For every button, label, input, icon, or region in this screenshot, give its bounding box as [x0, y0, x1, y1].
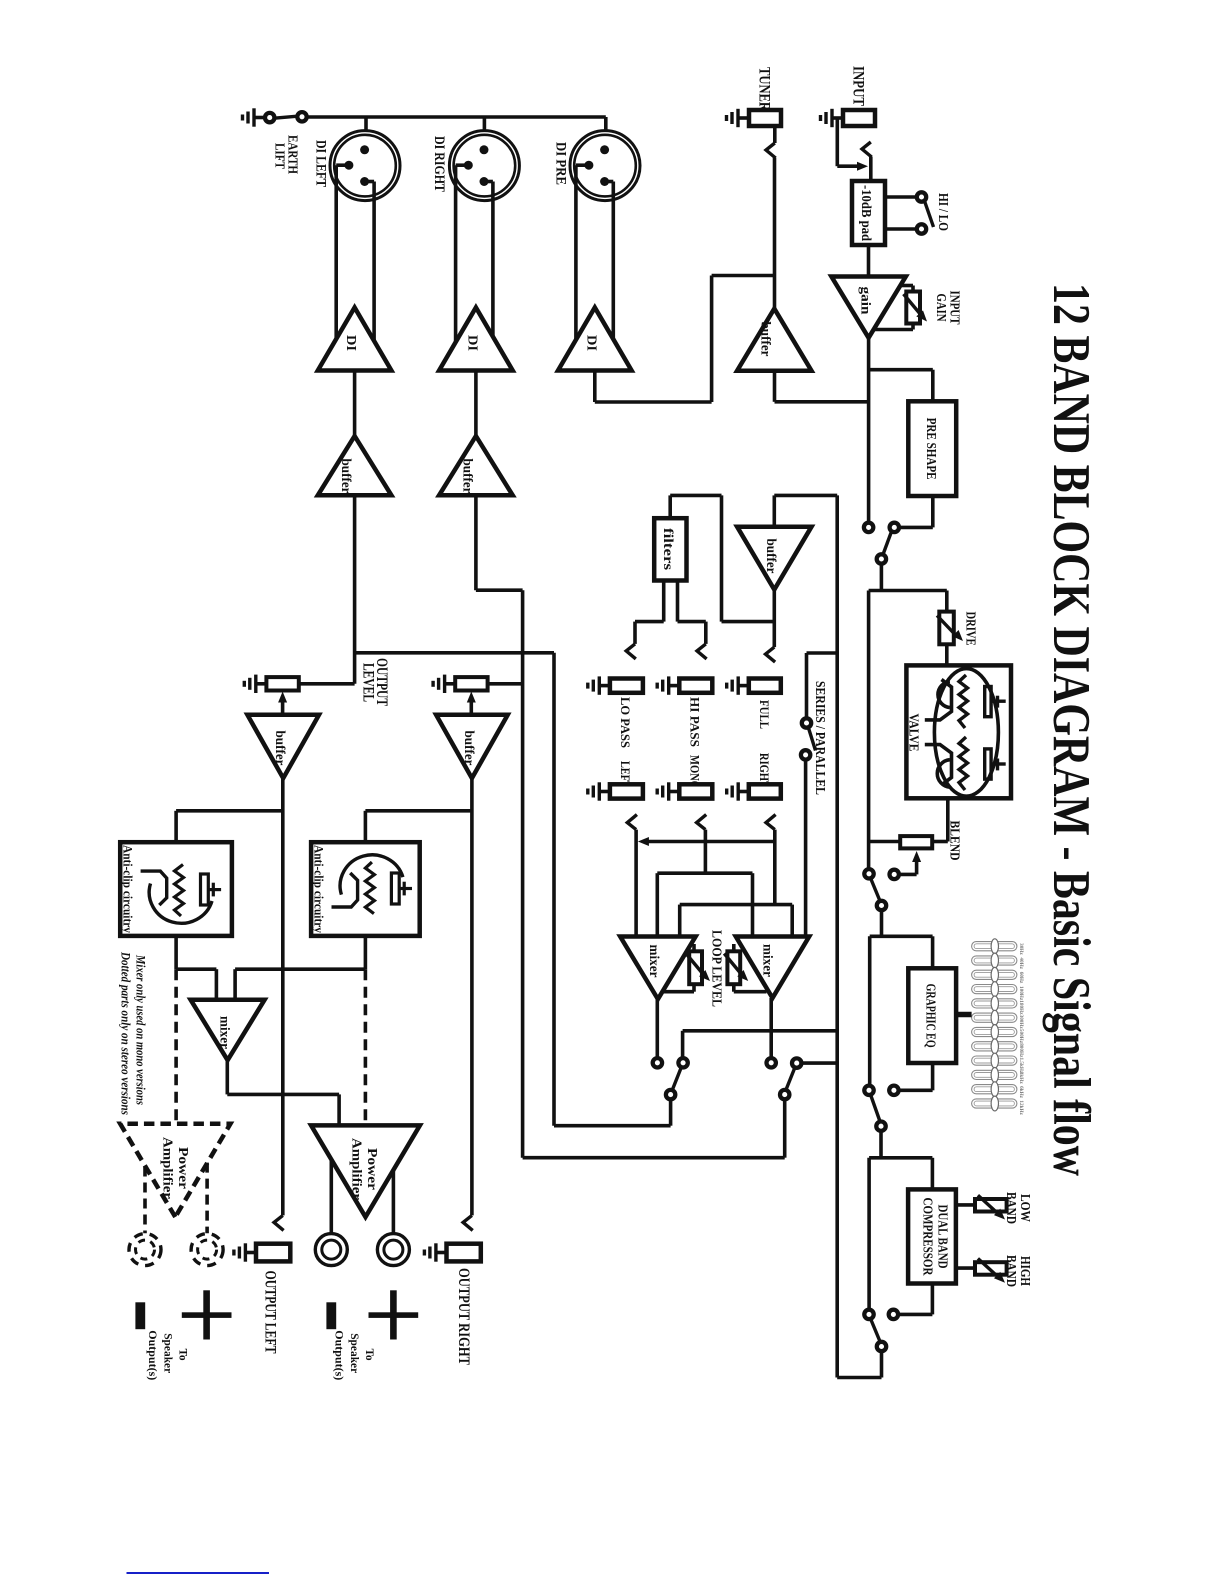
wire left pot lead: [299, 682, 355, 686]
potentiometer LOW BAND arrow: [978, 1195, 1005, 1219]
valve V1 triode 1 grid: [925, 675, 968, 728]
switch S10 mixer R contact A: [767, 1058, 776, 1067]
attenuator -10dB pad box: [852, 181, 885, 245]
wire loop bypass R: [801, 1061, 837, 1065]
label filters: [661, 528, 676, 570]
wire EQ bypass left leg: [868, 936, 872, 1086]
switch S8 parallel contact: [801, 750, 810, 759]
svg-text:buffer: buffer: [273, 731, 288, 766]
label DI right: [464, 335, 479, 351]
label TUNER: [756, 67, 773, 112]
wire mixer R common to right channel: [476, 590, 785, 1157]
label HIGH BAND: [1003, 1255, 1032, 1287]
label INPUT GAIN: [933, 291, 962, 326]
wire EQ in: [931, 936, 935, 968]
wire PRE SHAPE out to contact: [899, 496, 933, 527]
ground for OUTPUT LEVEL L: [244, 675, 267, 693]
wire tuner to buffer output: [773, 158, 777, 309]
svg-text:30Hz: 30Hz: [1018, 943, 1024, 955]
valve V1 triode 2 anode: [985, 749, 1006, 779]
polarity minus R: [326, 1302, 336, 1329]
wire S1 to pad: [869, 157, 873, 181]
wire anti-clip L out dashed: [174, 936, 178, 1124]
potentiometer BLEND body: [900, 836, 932, 848]
switch S6 common contact: [876, 1122, 885, 1131]
wire speaker leads R: [331, 1159, 393, 1233]
label LO PASS / LEFT: [618, 697, 633, 788]
label SERIES / PARALLEL: [812, 681, 827, 795]
label HI PASS / MONO: [687, 697, 702, 789]
potentiometer OUTPUT LEVEL L wiper arrow: [278, 692, 287, 717]
wire buffer tap to DI PRE: [595, 276, 775, 403]
potentiometer DRIVE arrow: [937, 616, 963, 642]
jack J3 LO PASS: [610, 679, 643, 693]
svg-text:BLEND: BLEND: [947, 821, 962, 861]
wire branch to PRE SHAPE in: [869, 370, 933, 402]
svg-text:mixer: mixer: [647, 945, 662, 978]
ground for MONO return jack: [657, 782, 681, 800]
ground for LO PASS jack: [588, 676, 612, 694]
switch S11 earth lift contact A: [265, 113, 274, 122]
op-amp output buffer L: [247, 715, 319, 778]
wire S6 common to comp T: [869, 1131, 932, 1158]
label BLEND: [947, 821, 962, 861]
wire pad to HI/LO contacts: [885, 197, 917, 229]
svg-text:Amplifier: Amplifier: [160, 1137, 175, 1199]
label DI LEFT: [313, 140, 329, 187]
valve V1 envelope: [934, 669, 998, 797]
potentiometer LOOP LEVEL L arrow: [686, 954, 710, 982]
wire gain out to tuner buffer input: [775, 371, 869, 402]
switch S11 lever: [274, 116, 297, 118]
potentiometer LOW BAND body: [975, 1199, 1007, 1212]
wire buffer out junction: [772, 590, 776, 648]
wire mono mixer feed R: [235, 969, 365, 1000]
speaker terminal R-: [315, 1234, 347, 1266]
svg-text:Anti-clip circuitry: Anti-clip circuitry: [121, 845, 136, 933]
speaker terminal R+: [377, 1234, 409, 1266]
wire comp bypass left leg: [867, 1158, 871, 1310]
svg-text:LO PASS: LO PASS: [618, 697, 633, 748]
switch S7 common contact: [877, 1342, 886, 1351]
svg-text:buffer: buffer: [759, 322, 774, 357]
wire trunk to series-parallel contact: [807, 653, 838, 719]
label HI / LO: [935, 193, 950, 231]
switch S9 common contact: [666, 1090, 675, 1099]
label DUAL BAND COMPRESSOR: [921, 1198, 951, 1276]
svg-text:LOOP LEVEL: LOOP LEVEL: [709, 930, 724, 1007]
valve V1 triode 2 grid: [925, 737, 968, 790]
ground for RIGHT return jack: [727, 782, 751, 800]
wire buffer R out: [470, 778, 474, 1215]
valve V1 triode 2 cathode: [937, 760, 950, 788]
switch chevron LEFT return: [627, 815, 637, 830]
label DRIVE: [963, 612, 978, 646]
label FULL / RIGHT: [757, 700, 772, 788]
block DUAL BAND COMPRESSOR: [908, 1189, 956, 1283]
svg-text:800Hz: 800Hz: [1018, 1043, 1024, 1058]
wire EQ out to contact: [898, 1063, 932, 1090]
switch chevron FULL send: [766, 647, 776, 662]
switch S7 lever: [871, 1319, 881, 1342]
switch S4 preshape lever: [883, 532, 892, 555]
svg-text:buffer: buffer: [460, 459, 475, 494]
wire DI right in: [474, 371, 478, 437]
title text 12 BAND BLOCK DIAGRAM - Basic Signal flow: [1042, 283, 1100, 1176]
svg-text:Mixer only used on mono versio: Mixer only used on mono versions: [134, 954, 148, 1105]
label GRAPHIC EQ: [923, 984, 938, 1048]
svg-text:FULL: FULL: [757, 700, 772, 729]
jack J9 OUTPUT LEFT: [256, 1244, 290, 1262]
wire return bus with arrow: [636, 830, 775, 937]
label DI PRE: [553, 142, 569, 185]
svg-text:mixer: mixer: [761, 944, 776, 977]
ground for HI PASS jack: [657, 676, 681, 694]
wire speaker leads L dashed: [145, 1163, 207, 1234]
svg-text:LOW: LOW: [1017, 1194, 1032, 1222]
label PRE SHAPE: [923, 418, 938, 480]
svg-text:6kHz: 6kHz: [1018, 1086, 1024, 1099]
switch S2 HI/LO lever: [925, 201, 934, 227]
svg-text:40Hz: 40Hz: [1018, 957, 1024, 969]
svg-text:Anti-clip circuitry: Anti-clip circuitry: [312, 845, 327, 933]
wire S4 common to T-junction: [869, 563, 947, 590]
label VALVE: [906, 714, 921, 752]
jack J8 RIGHT return: [749, 784, 781, 798]
label mixer R: [761, 944, 776, 977]
wire valve out to BLEND: [932, 798, 948, 841]
wire comp in: [931, 1158, 935, 1190]
wire comp to LOW BAND pot: [956, 1203, 975, 1207]
potentiometer LOOP LEVEL R body: [727, 944, 766, 992]
speaker terminal L+ dashed: [191, 1234, 223, 1266]
valve glyph anti-clip R: [332, 855, 413, 914]
op-amp buffer DI left: [318, 436, 392, 495]
wire parallel to mixer2: [804, 759, 808, 936]
svg-text:gain: gain: [858, 287, 873, 315]
svg-text:BAND: BAND: [1003, 1255, 1018, 1287]
op-amp power amplifier L dashed: [120, 1124, 230, 1217]
wire S7 common to trunk: [837, 1351, 881, 1378]
svg-text:buffer: buffer: [764, 539, 779, 574]
ground for EARTH LIFT: [243, 108, 267, 126]
svg-text:DI PRE: DI PRE: [553, 142, 569, 185]
label power amplifier L: [160, 1137, 191, 1199]
wire dry line to BLEND: [869, 591, 901, 870]
potentiometer LOOP LEVEL L body: [662, 944, 702, 992]
svg-text:To: To: [363, 1349, 377, 1361]
wire comp out to contact: [898, 1284, 933, 1315]
op-amp DI pre: [558, 308, 632, 371]
label gain: [858, 287, 873, 315]
label OUTPUT RIGHT: [455, 1268, 472, 1366]
label -10dB pad: [858, 185, 873, 241]
block GRAPHIC EQ: [908, 968, 956, 1063]
potentiometer INPUT GAIN body: [874, 286, 920, 330]
op-amp FX send buffer: [737, 527, 811, 590]
label INPUT: [850, 66, 867, 107]
block anti-clip R: [311, 842, 420, 936]
wire mixer L common to left channel: [554, 653, 671, 1126]
svg-text:Speaker: Speaker: [348, 1333, 362, 1374]
wire comp to HIGH BAND pot: [956, 1266, 975, 1270]
switch S7 comp contact B: [889, 1310, 898, 1319]
op-amp tuner buffer: [737, 309, 811, 371]
wire pad to gain amp: [867, 245, 871, 277]
speaker terminal L- dashed: [129, 1234, 161, 1266]
switch S9 mixer L contact A: [653, 1058, 662, 1067]
switch S4 preshape contact B: [890, 523, 899, 532]
svg-text:COMPRESSOR: COMPRESSOR: [921, 1198, 936, 1276]
wire right pot lead: [488, 682, 523, 686]
switch S3 tuner normalling chevron: [766, 126, 776, 158]
svg-text:TUNER: TUNER: [756, 67, 773, 112]
switch S11 earth lift contact B: [297, 112, 306, 121]
switch S4 preshape contact A: [864, 523, 873, 532]
switch S10 lever: [786, 1067, 795, 1090]
ground for FULL jack: [727, 676, 751, 694]
label anti-clip R: [312, 845, 327, 933]
label buffer DI right: [460, 459, 475, 494]
svg-text:LEVEL: LEVEL: [359, 663, 376, 702]
connector XLR DI LEFT: [330, 131, 400, 352]
ground for OUTPUT RIGHT jack: [424, 1243, 448, 1261]
wire DI left in: [353, 371, 357, 437]
svg-text:12kHz: 12kHz: [1018, 1100, 1024, 1115]
jack J10 OUTPUT RIGHT: [447, 1244, 481, 1262]
wire drive branch: [945, 591, 949, 612]
ground for OUTPUT LEFT jack: [234, 1243, 258, 1261]
svg-text:Power: Power: [364, 1148, 379, 1190]
ground for OUTPUT LEVEL R: [433, 675, 457, 693]
switch chevron LO PASS send: [626, 644, 636, 659]
potentiometer INPUT GAIN arrow: [904, 294, 928, 322]
label OUTPUT LEVEL: [359, 658, 390, 706]
potentiometer OUTPUT LEVEL R body: [455, 677, 487, 690]
svg-text:Dotted parts only on stereo ve: Dotted parts only on stereo versions: [119, 951, 133, 1115]
svg-text:DI RIGHT: DI RIGHT: [431, 136, 447, 192]
op-amp mono mixer: [191, 1000, 265, 1060]
label power amplifier R: [349, 1138, 380, 1200]
svg-text:DRIVE: DRIVE: [963, 612, 978, 646]
op-amp mixer L: [620, 937, 695, 1000]
block filters: [654, 518, 686, 580]
ground for TUNER jack: [727, 109, 751, 127]
svg-text:100Hz: 100Hz: [1018, 986, 1024, 1001]
wire earth bus: [307, 117, 606, 146]
svg-text:VALVE: VALVE: [906, 714, 921, 752]
jack J7 MONO return: [679, 784, 712, 798]
svg-text:DI: DI: [583, 335, 598, 351]
svg-text:HIGH: HIGH: [1017, 1256, 1032, 1286]
svg-text:Output(s): Output(s): [146, 1330, 160, 1380]
svg-text:SERIES / PARALLEL: SERIES / PARALLEL: [812, 681, 827, 795]
label DI pre: [583, 335, 598, 351]
svg-text:3kHz: 3kHz: [1018, 1072, 1024, 1085]
graphic EQ slider bank: [972, 939, 1024, 1116]
switch chevron MONO return: [697, 815, 707, 830]
op-amp DI left: [318, 308, 392, 371]
switch S5 dry contact: [864, 869, 873, 878]
switch S8 lever: [808, 727, 815, 751]
valve V1 triode 1 anode: [985, 687, 1006, 717]
svg-text:LIFT: LIFT: [271, 143, 286, 170]
svg-text:GAIN: GAIN: [933, 294, 948, 322]
wire mono mixer out: [227, 1060, 339, 1125]
svg-text:OUTPUT RIGHT: OUTPUT RIGHT: [455, 1268, 472, 1366]
switch S10 common contact: [780, 1090, 789, 1099]
potentiometer OUTPUT LEVEL R wiper arrow: [467, 692, 476, 717]
jack J1 INPUT: [843, 110, 875, 126]
label mixer L: [647, 945, 662, 978]
op-amp buffer DI right: [439, 436, 513, 495]
svg-text:HI PASS: HI PASS: [687, 697, 702, 747]
wire mixer R out: [769, 998, 773, 1058]
switch S1 input normalling chevron: [862, 142, 872, 157]
svg-text:DUAL BAND: DUAL BAND: [936, 1205, 951, 1269]
wire INPUT sleeve to switch arrow: [837, 118, 868, 171]
switch chevron OUTPUT RIGHT: [463, 1215, 473, 1230]
polarity minus L: [135, 1302, 145, 1329]
wire trunk to FX buffer: [774, 495, 837, 526]
wire buffer L out: [281, 778, 285, 1215]
svg-text:buffer: buffer: [462, 731, 477, 766]
wire mixer L out: [655, 999, 659, 1058]
wire loop bypass L: [683, 1031, 838, 1059]
valve glyph anti-clip L: [141, 865, 222, 924]
ground for INPUT jack: [821, 109, 845, 127]
svg-text:buffer: buffer: [339, 459, 354, 494]
switch S5 common contact: [877, 901, 886, 910]
switch S6 eq contact A: [864, 1086, 873, 1095]
polarity plus L: [182, 1290, 232, 1339]
wire anti-clip R out dashed: [364, 936, 368, 1126]
wire right return split: [680, 905, 793, 937]
svg-text:180Hz: 180Hz: [1018, 1000, 1024, 1015]
svg-text:OUTPUT LEFT: OUTPUT LEFT: [262, 1271, 279, 1355]
svg-text:filters: filters: [661, 528, 676, 570]
switch chevron RIGHT return: [766, 815, 776, 830]
op-amp mixer R: [736, 937, 809, 999]
label buffer tuner: [759, 322, 774, 357]
potentiometer LOOP LEVEL R arrow: [724, 954, 748, 982]
valve V1 triode 1 cathode: [938, 682, 950, 708]
switch S10 mixer R contact B: [792, 1058, 801, 1067]
svg-text:-10dB pad: -10dB pad: [858, 185, 873, 241]
svg-text:GRAPHIC EQ: GRAPHIC EQ: [923, 984, 938, 1048]
label anti-clip L: [121, 845, 136, 933]
label DI left: [343, 335, 358, 351]
switch S9 mixer L contact B: [678, 1058, 687, 1067]
svg-text:Output(s): Output(s): [333, 1330, 347, 1380]
switch S9 lever: [672, 1067, 681, 1090]
svg-text:DI: DI: [343, 335, 358, 351]
wire mono mixer feed L: [176, 969, 216, 1000]
label buffer out R: [462, 731, 477, 766]
wire FX trunk: [835, 495, 839, 1377]
hyperlink underline artifact: [127, 1572, 270, 1574]
label DI RIGHT: [431, 136, 447, 192]
label buffer fx: [764, 539, 779, 574]
block VALVE box: [906, 665, 1011, 798]
svg-text:DI LEFT: DI LEFT: [313, 140, 329, 187]
connector XLR DI PRE: [570, 131, 640, 352]
wire buffer right down: [474, 495, 478, 590]
wire mono return split: [657, 873, 752, 936]
label to speaker outputs R: [333, 1330, 377, 1380]
svg-text:To: To: [177, 1349, 191, 1361]
op-amp power amplifier R: [311, 1125, 420, 1217]
connector XLR DI RIGHT: [449, 131, 519, 352]
jack J2 TUNER: [749, 110, 781, 126]
block PRE SHAPE: [908, 401, 956, 496]
wire filters out pair: [635, 581, 706, 644]
switch S5 blend wiper contact: [890, 870, 899, 879]
switch S8 series contact: [802, 718, 811, 727]
switch S2 HI/LO contact B: [917, 224, 926, 233]
wire S5 common to EQ T: [870, 910, 933, 936]
wire EQ to sliders: [956, 1012, 972, 1018]
op-amp output buffer R: [436, 715, 508, 778]
label LOOP LEVEL: [709, 930, 724, 1007]
svg-text:PRE SHAPE: PRE SHAPE: [923, 418, 938, 480]
label EARTH LIFT: [271, 135, 299, 174]
wire DRIVE to valve: [945, 644, 949, 665]
jack J5 FULL: [749, 679, 781, 693]
switch S5 lever: [871, 878, 881, 901]
svg-text:Speaker: Speaker: [162, 1333, 176, 1374]
potentiometer DRIVE body: [939, 612, 954, 645]
switch S7 comp contact A: [864, 1310, 873, 1319]
potentiometer OUTPUT LEVEL L body: [266, 677, 298, 690]
label mono mixer: [218, 1016, 233, 1049]
polarity plus R: [369, 1290, 419, 1339]
svg-text:HI / LO: HI / LO: [935, 193, 950, 231]
note italic text: [119, 951, 148, 1115]
svg-text:mixer: mixer: [218, 1016, 233, 1049]
switch chevron HI PASS send: [697, 644, 707, 659]
wire left channel junction: [355, 495, 554, 684]
jack J4 HI PASS: [679, 679, 712, 693]
label to speaker outputs L: [146, 1330, 190, 1380]
switch S6 lever: [871, 1095, 881, 1122]
label buffer out L: [273, 731, 288, 766]
potentiometer BLEND wiper arrow: [899, 851, 922, 874]
svg-text:Power: Power: [175, 1147, 190, 1189]
block anti-clip L: [120, 842, 232, 936]
svg-text:300Hz: 300Hz: [1018, 1015, 1024, 1030]
switch S2 HI/LO contact A: [917, 192, 926, 201]
label OUTPUT LEFT: [262, 1271, 279, 1355]
switch chevron OUTPUT LEFT: [274, 1215, 284, 1230]
op-amp DI right: [439, 308, 513, 371]
label buffer DI left: [339, 459, 354, 494]
potentiometer HIGH BAND arrow: [978, 1259, 1005, 1283]
wire to anti-clip L: [176, 811, 283, 842]
wire to anti-clip R: [365, 811, 472, 842]
svg-text:12 BAND BLOCK DIAGRAM - Basic: 12 BAND BLOCK DIAGRAM - Basic Signal flo…: [1042, 283, 1100, 1176]
svg-text:60Hz: 60Hz: [1018, 972, 1024, 984]
switch S6 eq contact B: [889, 1086, 898, 1095]
potentiometer HIGH BAND body: [975, 1262, 1007, 1275]
label LOW BAND: [1003, 1192, 1032, 1224]
jack J6 LEFT return: [610, 784, 643, 798]
wire filters loop: [670, 495, 774, 621]
op-amp gain: [831, 277, 905, 338]
svg-text:500Hz: 500Hz: [1018, 1029, 1024, 1044]
svg-text:BAND: BAND: [1003, 1192, 1018, 1224]
ground for LEFT return jack: [588, 782, 612, 800]
